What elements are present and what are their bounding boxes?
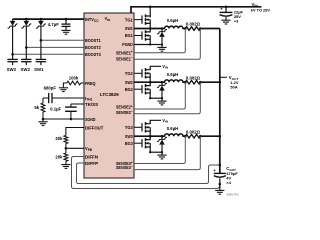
- svg-text:0.002Ω: 0.002Ω: [186, 22, 201, 27]
- svg-text:DIFFP: DIFFP: [85, 161, 98, 166]
- svg-text:0.1µF: 0.1µF: [50, 107, 61, 112]
- svg-text:SENSE3−: SENSE3−: [116, 165, 133, 170]
- svg-text:6V TO 28V: 6V TO 28V: [251, 8, 271, 13]
- svg-text:0.6µH: 0.6µH: [167, 126, 179, 131]
- svg-text:680pF: 680pF: [44, 85, 57, 90]
- svg-text:TG2: TG2: [125, 71, 133, 76]
- svg-text:FREQ: FREQ: [85, 81, 96, 86]
- svg-text:BG1: BG1: [125, 33, 133, 38]
- svg-text:SW3: SW3: [125, 134, 133, 139]
- svg-text:PGND: PGND: [122, 42, 133, 47]
- svg-text:0.002Ω: 0.002Ω: [186, 129, 201, 134]
- svg-text:DIFFN: DIFFN: [85, 154, 98, 159]
- svg-text:4.7µF: 4.7µF: [48, 22, 59, 27]
- svg-text:SENSE1+: SENSE1+: [116, 50, 133, 55]
- svg-text:BOOST2: BOOST2: [85, 45, 101, 50]
- svg-text:0.6µH: 0.6µH: [167, 18, 179, 23]
- svg-text:×3: ×3: [234, 19, 239, 24]
- svg-text:100k: 100k: [69, 76, 79, 81]
- svg-text:BOOST1: BOOST1: [85, 38, 101, 43]
- svg-text:DIFFOUT: DIFFOUT: [85, 125, 104, 130]
- svg-text:SENSE1−: SENSE1−: [116, 56, 133, 61]
- svg-text:5k: 5k: [34, 105, 39, 110]
- svg-text:SGND: SGND: [85, 117, 96, 122]
- svg-text:SW1: SW1: [125, 26, 133, 31]
- svg-text:BG2: BG2: [125, 87, 133, 92]
- svg-text:50A: 50A: [230, 85, 237, 90]
- svg-text:20k: 20k: [55, 154, 63, 159]
- svg-text:SW2: SW2: [21, 67, 31, 72]
- svg-text:20k: 20k: [55, 136, 63, 141]
- svg-text:BOOST3: BOOST3: [85, 52, 101, 57]
- svg-text:0.6µH: 0.6µH: [167, 72, 179, 77]
- svg-text:TG3: TG3: [125, 125, 133, 130]
- svg-text:SW2: SW2: [125, 80, 133, 85]
- svg-text:TG1: TG1: [125, 17, 133, 22]
- svg-text:SENSE2−: SENSE2−: [116, 110, 133, 115]
- svg-text:SW3: SW3: [7, 67, 17, 72]
- svg-text:LTC3829: LTC3829: [100, 92, 119, 97]
- svg-text:SW1: SW1: [34, 67, 44, 72]
- svg-text:BG3: BG3: [125, 141, 133, 146]
- svg-text:0.002Ω: 0.002Ω: [186, 75, 201, 80]
- svg-text:TK/SS: TK/SS: [85, 102, 98, 107]
- svg-text:3829 F01: 3829 F01: [227, 192, 240, 196]
- svg-text:×4: ×4: [226, 180, 231, 185]
